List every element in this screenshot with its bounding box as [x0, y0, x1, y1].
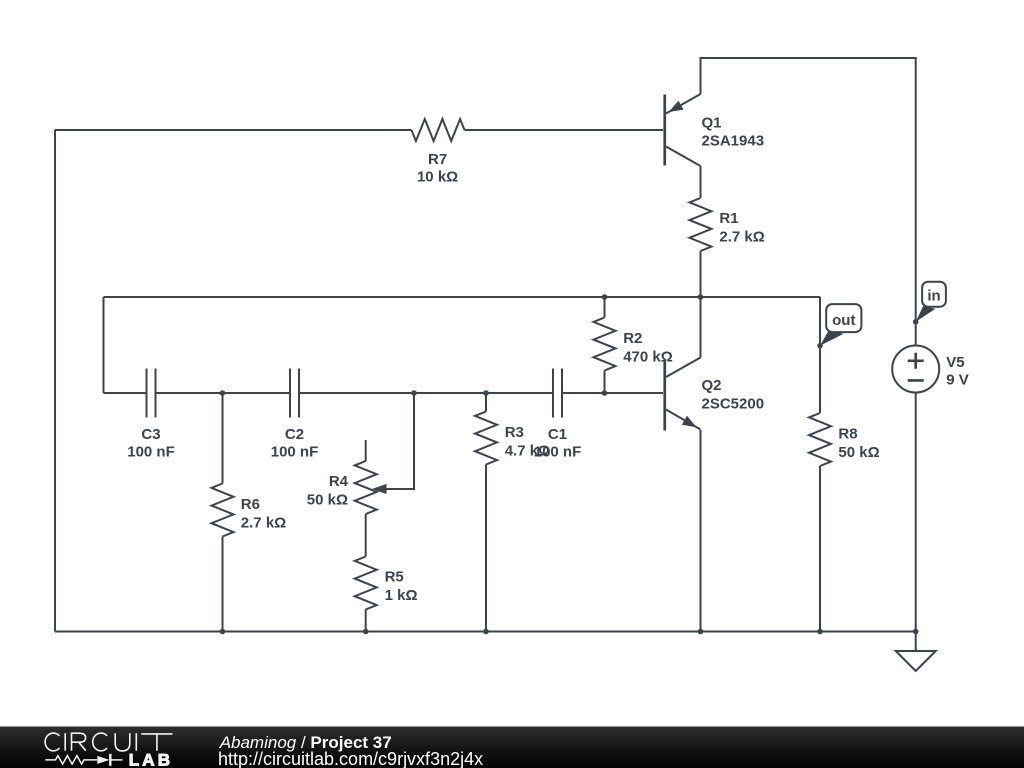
wire: mid horizontal rail [104, 296, 821, 298]
wire: R4/R5 middle link [365, 514, 367, 557]
wire: Q2 emitter to ground rail [700, 430, 702, 632]
svg-text:100 nF: 100 nF [534, 443, 582, 460]
credit line: url [218, 749, 483, 768]
svg-text:R7: R7 [428, 151, 447, 168]
svg-text:C2: C2 [285, 426, 304, 443]
resistor R3 [475, 412, 550, 465]
svg-text:LAB: LAB [129, 751, 174, 768]
wire: R8 bottom lead [819, 466, 821, 632]
svg-text:http://circuitlab.com/c9rjvxf3: http://circuitlab.com/c9rjvxf3n2j4x [218, 749, 483, 768]
svg-text:Q2: Q2 [702, 377, 722, 394]
junction V5 minus / ground rail [913, 629, 919, 635]
node out attachment [817, 343, 823, 349]
node in attachment [913, 319, 919, 325]
svg-text:9 V: 9 V [946, 371, 969, 388]
svg-text:2.7 kΩ: 2.7 kΩ [241, 515, 286, 532]
junction Q2 emitter / ground rail [698, 629, 704, 635]
ground [896, 632, 936, 672]
wire: R2 bottom lead [604, 371, 606, 394]
junction R6 bottom / ground rail [220, 629, 226, 635]
wire: bottom ground rail [55, 631, 916, 633]
svg-text:100 nF: 100 nF [127, 443, 175, 460]
svg-text:2.7 kΩ: 2.7 kΩ [719, 229, 764, 246]
svg-text:C1: C1 [548, 426, 567, 443]
wire: R7 to Q1 base [465, 129, 664, 131]
resistor R6 [212, 484, 287, 537]
wire: Q1 collector to R1 [700, 166, 702, 198]
wire: V5 bottom to ground rail [915, 392, 917, 632]
capacitor C3 [127, 369, 175, 461]
resistor R7 [412, 119, 465, 186]
wire: out branch from mid rail to R8 [819, 297, 821, 413]
junction C3-C2 / R6 top [220, 390, 226, 396]
junction R1 bottom / Q2 collector / mid rail [698, 294, 704, 300]
net flag out [820, 304, 861, 346]
resistor R2 [594, 318, 673, 371]
svg-text:2SC5200: 2SC5200 [702, 396, 765, 413]
wire: R6 top lead from cap chain [222, 393, 224, 484]
resistor R8 [809, 413, 880, 466]
capacitor C1 [534, 369, 582, 461]
svg-text:50 kΩ: 50 kΩ [307, 492, 348, 509]
wire: mid rail left drop to cap chain [103, 297, 105, 393]
wire: top wire from left rail to R7 [55, 129, 412, 131]
junction R8 bottom / ground rail [817, 629, 823, 635]
wire: C3 to C2 segment [156, 392, 291, 394]
junction R2 bottom / cap chain [602, 390, 608, 396]
wire: R4 wiper riser [385, 393, 414, 489]
resistor R1 [690, 198, 765, 251]
svg-text:R8: R8 [838, 426, 857, 443]
wire: R3 bottom lead [485, 465, 487, 632]
svg-text:in: in [927, 288, 940, 305]
credit line: author / project [219, 733, 392, 752]
svg-text:R6: R6 [241, 496, 260, 513]
net flag in [916, 282, 946, 322]
junction R3 bottom / ground rail [483, 629, 489, 635]
branding bar background [0, 727, 1024, 768]
transistor Q2 (NPN 2SC5200) [663, 297, 764, 431]
junction C2-C1 / R4 wiper riser [411, 390, 417, 396]
svg-text:out: out [832, 312, 855, 329]
svg-text:1 kΩ: 1 kΩ [385, 587, 418, 604]
wire: R5 bottom lead [365, 610, 367, 632]
CircuitLab logo LAB [129, 751, 174, 768]
svg-text:R2: R2 [623, 330, 642, 347]
capacitor C2 [271, 369, 319, 461]
CircuitLab logo resistor-diode squiggle [45, 754, 122, 766]
svg-text:R5: R5 [385, 568, 404, 585]
wire: R2 top lead [604, 297, 606, 318]
junction R2 top / mid rail [602, 294, 608, 300]
junction R3 top / cap chain [483, 390, 489, 396]
junction R5 bottom / ground rail [363, 629, 369, 635]
transistor Q1 (PNP 2SA1943) [663, 94, 764, 166]
svg-text:2SA1943: 2SA1943 [702, 133, 765, 150]
wire: R6 bottom lead to ground rail [222, 537, 224, 632]
wire: left vertical rail [54, 130, 56, 632]
wire: R3 top lead [485, 393, 487, 412]
svg-text:Q1: Q1 [702, 114, 722, 131]
svg-text:100 nF: 100 nF [271, 443, 319, 460]
wire: cap chain segment corner to C3 [104, 392, 147, 394]
wire: R1 bottom to mid rail [700, 251, 702, 297]
svg-text:R4: R4 [329, 473, 349, 490]
svg-text:R1: R1 [719, 210, 738, 227]
resistor R5 [355, 557, 418, 610]
voltage source V5 [892, 346, 969, 393]
potentiometer R4 [307, 440, 387, 514]
svg-text:50 kΩ: 50 kΩ [838, 444, 879, 461]
wire: Q1 emitter top rail to V+ corner [701, 58, 916, 346]
svg-text:C3: C3 [141, 426, 160, 443]
svg-text:V5: V5 [946, 354, 964, 371]
svg-text:10 kΩ: 10 kΩ [417, 169, 458, 186]
CircuitLab logo wordmark CIRCUIT [45, 733, 172, 751]
wire: C2 to C1 segment [299, 392, 553, 394]
svg-text:R3: R3 [505, 424, 524, 441]
wire: C1 to Q2 base segment [562, 392, 663, 394]
